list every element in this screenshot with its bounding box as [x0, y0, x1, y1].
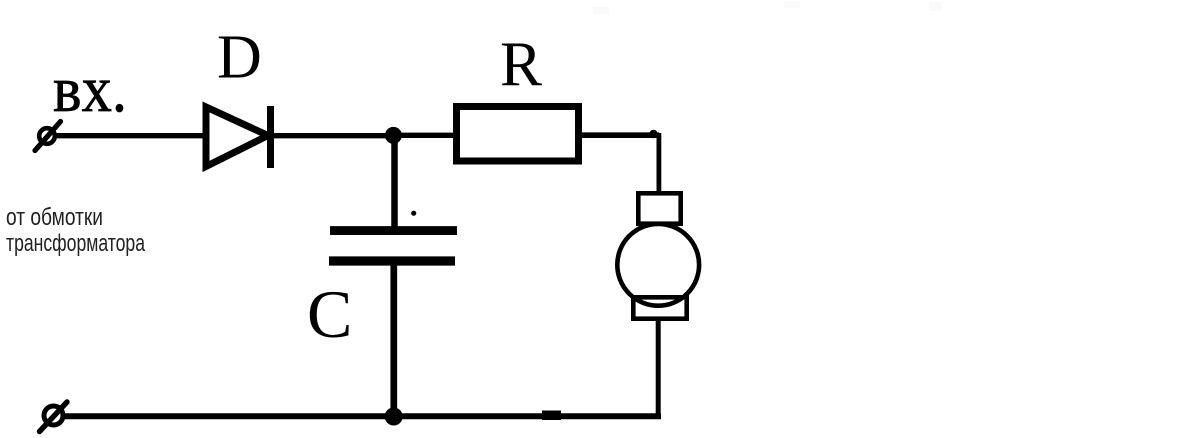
capacitor C bottom plate: [329, 256, 455, 265]
diode D anode triangle: [206, 107, 268, 167]
input terminal (вх.): [35, 122, 61, 151]
capacitor C top lead: [391, 135, 398, 231]
node B junction dot (bottom): [385, 408, 403, 426]
motor M bottom brush: [633, 297, 686, 318]
resistor R: [457, 107, 579, 162]
wire: corner down to motor: [657, 133, 662, 195]
svg-text:трансформатора: трансформатора: [6, 230, 145, 257]
capacitor C bottom lead: [390, 261, 397, 416]
diode D cathode bar: [267, 106, 274, 168]
wire: resistor to corner: [582, 132, 659, 138]
bottom rail overlap blob: [542, 411, 561, 421]
wire: diode to node A: [272, 133, 393, 138]
corner bump dot: [649, 130, 657, 138]
svg-text:вх.: вх.: [53, 53, 127, 126]
stray dot near capacitor: [411, 211, 416, 216]
svg-text:R: R: [500, 30, 542, 100]
node A junction dot: [385, 127, 402, 144]
svg-text:от обмотки: от обмотки: [6, 204, 103, 231]
output terminal (bottom): [40, 402, 68, 432]
wire: input terminal to diode: [55, 133, 208, 138]
svg-text:C: C: [307, 276, 352, 352]
wire: motor to bottom rail: [656, 318, 661, 419]
capacitor C top plate: [330, 226, 457, 235]
motor M body circle: [617, 224, 699, 306]
faint crop remnants at top edge: [593, 1, 942, 14]
svg-text:D: D: [217, 24, 262, 92]
motor M top brush: [638, 193, 680, 223]
wire: node A to resistor: [393, 133, 457, 138]
bottom rail wire: [64, 413, 661, 419]
